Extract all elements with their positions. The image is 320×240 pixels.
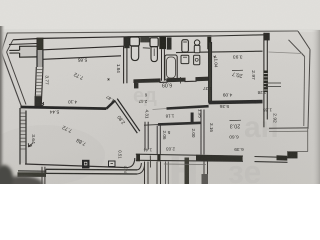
balcony bottom — [269, 127, 308, 129]
tick below wall — [180, 77, 182, 84]
inner face line of top wall right part — [176, 51, 263, 52]
top wall right section (single line over room F) — [212, 35, 265, 36]
small speck in room — [108, 78, 110, 80]
window sill C left — [9, 44, 37, 45]
bottom wall of storage/right section — [136, 154, 288, 157]
diagonal wall of hall (double) — [106, 101, 114, 109]
top wall over bathrooms single line — [124, 35, 212, 38]
storage room walls — [145, 122, 148, 150]
bathroom block left wall — [124, 46, 127, 83]
wall posts below the line — [124, 37, 129, 48]
wall jog arcs at x~130 — [128, 158, 135, 167]
big room inner bottom corner line (loggia window line) — [25, 164, 128, 168]
right balcony outer corner — [298, 31, 310, 49]
floor plan photo (rotated 180deg scan of apartment plan) — [0, 0, 320, 184]
wall H segment room F bottom — [209, 102, 263, 103]
bottom right outer lines — [287, 150, 308, 152]
lighter strip above plan — [0, 0, 320, 32]
toilet 2 (tank + bowl) — [150, 38, 158, 47]
inner chamfer top-left — [7, 40, 13, 52]
loggia outer wall (double) — [46, 168, 137, 171]
bathtub — [165, 55, 177, 80]
stair flight side rails — [35, 67, 36, 107]
bottom-left corner junction wall — [18, 172, 47, 177]
washbasin 1 — [182, 40, 189, 52]
black wall posts / filled segments of bottom wall — [136, 154, 140, 162]
hatched lower part of right wall — [264, 71, 268, 93]
small fixture c — [181, 55, 189, 63]
bathroom bottom wall — [134, 77, 209, 83]
electrical box on loggia wall — [82, 160, 90, 169]
left wall of big room (gray filled double) — [21, 109, 26, 163]
washbasin 2 (pedestal) — [194, 40, 199, 45]
soft shade lower-left room — [0, 125, 105, 185]
window ticks through right wall — [266, 83, 281, 87]
wall E (bathroom right / room F left) — [209, 42, 212, 103]
corner fill top-right of F — [264, 33, 270, 41]
stair treads — [35, 70, 42, 96]
outer chamfer top-left — [1, 33, 7, 52]
small box on loggia line — [109, 161, 116, 167]
room F right wall — [263, 33, 265, 128]
inner diagonal wall lower-left — [7, 52, 26, 105]
paper background — [0, 0, 320, 184]
window line B left section — [13, 39, 37, 40]
short sill lines between fixtures — [132, 46, 150, 49]
filled parts of bathroom bottom wall — [134, 79, 160, 83]
toilet 1 (tank + bowl) — [130, 37, 140, 46]
partition between bathrooms — [161, 49, 163, 81]
corridor left arm: narrow neck from diagonal — [9, 50, 19, 53]
watermark letters (photo site watermark) — [133, 85, 279, 196]
wall H segment over storage (corridor south wall) — [167, 106, 209, 108]
outer facade faint line top — [7, 31, 298, 33]
arrow flag of diagonal dim at corner — [28, 143, 33, 147]
neighbour faint horizontal — [164, 163, 206, 166]
door leaf line in bottom wall doorway — [149, 156, 151, 168]
door leaf faint at H doorway — [153, 109, 167, 110]
big room top wall — [21, 107, 107, 109]
photo grain and shading — [0, 0, 320, 184]
neighbour walls below bottom — [42, 167, 45, 184]
balcony inner lines — [289, 40, 305, 57]
corridor left arm: wide band — [20, 46, 37, 57]
small fixture d — [194, 55, 200, 65]
bottom-left dark corner blob — [0, 165, 43, 192]
window line B right section — [43, 37, 124, 39]
wall stub below — [134, 83, 138, 89]
wall inner face line D (bottom of right arm) — [43, 56, 121, 60]
stair lower dark segment — [35, 97, 41, 107]
small cross mark — [213, 56, 216, 59]
window sill C right (top of right arm) — [43, 46, 124, 50]
stairwell wall vertical dark bar — [37, 38, 43, 50]
window jamb right — [123, 37, 125, 46]
outer diagonal wall lower-left — [1, 52, 22, 108]
